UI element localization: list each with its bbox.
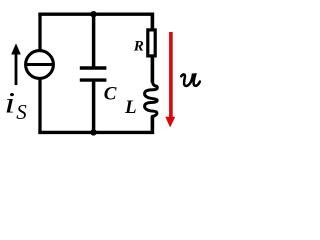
wire right top bbox=[151, 13, 155, 31]
wire left lower bbox=[38, 79, 41, 135]
resistor R body bbox=[148, 30, 155, 56]
node bottom junction bbox=[90, 129, 96, 135]
capacitor C top plate bbox=[80, 66, 107, 69]
node top junction bbox=[90, 11, 96, 17]
svg-text:L: L bbox=[124, 97, 137, 118]
arrow u (voltage, red) bbox=[165, 32, 175, 128]
svg-text:C: C bbox=[104, 83, 117, 104]
svg-text:R: R bbox=[133, 39, 144, 55]
current source bar bbox=[25, 63, 54, 66]
wire top bbox=[38, 12, 154, 15]
wire capacitor top bbox=[92, 13, 96, 67]
wire resistor to inductor bbox=[151, 56, 155, 83]
wire bottom bbox=[38, 131, 154, 134]
svg-text:i: i bbox=[4, 86, 15, 120]
wire inductor to bottom bbox=[151, 116, 155, 134]
current source circle bbox=[26, 51, 54, 79]
wire capacitor bottom bbox=[92, 81, 96, 133]
inductor L coil bbox=[145, 80, 158, 116]
svg-text:S: S bbox=[16, 100, 27, 124]
arrow i_S (current direction) bbox=[11, 43, 21, 85]
wire left upper bbox=[38, 13, 41, 51]
capacitor C bottom plate bbox=[80, 78, 107, 81]
label u bbox=[181, 74, 200, 85]
